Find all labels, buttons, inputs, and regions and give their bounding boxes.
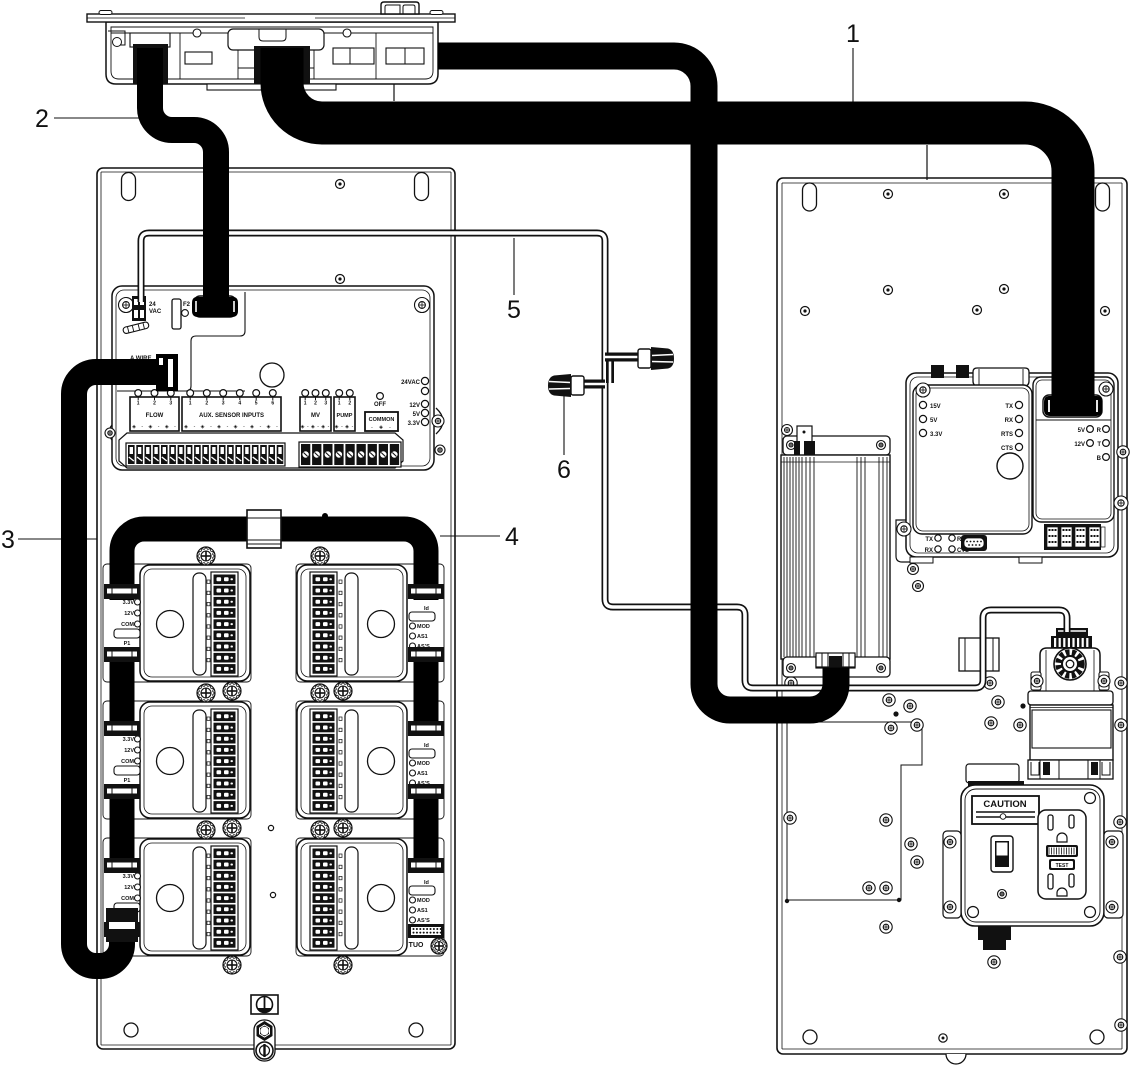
svg-text:1: 1 [846,20,860,48]
svg-text:MOD: MOD [417,624,430,630]
U1 top connector [973,368,1029,386]
svg-text:◈: ◈ [345,424,349,430]
PCB1 24VAC input connector [132,296,162,321]
PCB1 COMMON block [365,412,398,431]
U1 antenna stub 2 [956,365,969,378]
PCB1 fuse F2 [172,299,191,329]
label 2 leader [54,117,150,119]
module M6 screw tabs [311,821,352,974]
U1 button [997,453,1023,479]
GFCI bottom conduit bushing [978,926,1011,950]
svg-text:Id: Id [424,606,429,612]
left col port overlays row 1 [104,584,140,599]
svg-text:COM: COM [121,896,134,902]
PS1 output connector [816,655,855,668]
PS1 top bracket screw left [787,441,796,450]
right panel washer screw (791,683) [785,677,797,689]
right panel washer screw (1121,1025) [1115,1019,1127,1031]
svg-text:3: 3 [222,401,225,407]
module M4 top port [408,721,444,736]
svg-text:TX: TX [925,537,933,543]
PS1 top bracket screw right [877,441,886,450]
right panel washer screw (889,700) [883,694,895,706]
svg-text:PUMP: PUMP [337,413,353,419]
PCB1 right LED column [401,377,429,427]
left panel bottom hole right [409,1023,423,1037]
svg-text:TX: TX [1005,404,1013,410]
relay module M6 (row 3 right) [296,838,444,956]
U1 left radio module [913,385,1032,534]
right panel washer screw (869,888) [863,882,875,894]
right panel screw hole (805,311) [801,307,810,316]
right panel screw hole (1004,289) [1000,285,1009,294]
svg-text:12V: 12V [1074,442,1085,448]
PCB1 right terminal strip (large screw terminals) [299,442,401,467]
left mounting panel [97,168,455,1049]
cable 3 (A-wire loop from PCB1 to module M5) [74,372,176,966]
toggle switch S1 [991,836,1013,872]
top unit small circle left [193,29,201,37]
U1 corner screw top-right [1099,382,1113,396]
svg-text:5: 5 [255,401,258,407]
GFCI bracket screw left-top [944,836,956,848]
GFCI corner screws [968,793,1096,918]
PS1 terminal washer [782,425,793,436]
svg-text:RTS: RTS [1001,432,1013,438]
right panel washer screw (1121,683) [1115,677,1127,689]
left panel mounting slot right [415,173,429,201]
svg-text:6: 6 [271,401,274,407]
right panel washer screw (886,927) [880,921,892,933]
svg-text:2: 2 [314,401,317,407]
U1 terminal block [1044,524,1105,550]
U1 side screw tab right [1114,496,1128,510]
svg-text:12V: 12V [409,403,420,409]
right panel washer screw (917,862) [911,856,923,868]
svg-text:RX: RX [1005,418,1013,424]
right panel washer screw (891,728) [885,722,897,734]
relay module M5 (row 3 left) [103,838,251,956]
svg-text:2: 2 [35,105,49,133]
top unit left bracket [108,31,125,47]
svg-text:Id: Id [424,880,429,886]
right panel screw hole (888,290) [884,286,893,295]
module M1 screw tabs [197,547,241,700]
relay module M4 (row 2 right) [296,701,444,819]
svg-text:AUX. SENSOR INPUTS: AUX. SENSOR INPUTS [199,413,264,419]
svg-text:3.3V: 3.3V [123,737,135,743]
PS1 bottom bracket screw left [787,664,796,673]
label 3 leader [18,538,97,540]
svg-text:◈: ◈ [184,424,188,430]
module M6 top port [408,858,444,873]
right panel washer screw (886,820) [880,814,892,826]
svg-text:RX: RX [925,548,933,554]
svg-text:◈: ◈ [335,424,339,430]
svg-text:◈: ◈ [165,424,169,430]
svg-text:B: B [1097,456,1102,462]
svg-text:4: 4 [505,523,519,551]
top unit port bank right1 [333,48,374,64]
PCB1 left terminal strip (small screw terminals) [126,443,285,466]
svg-text:AS1: AS1 [417,908,428,914]
PCB1 MV terminal group [300,390,331,431]
svg-text:COM: COM [121,622,134,628]
svg-text:Id: Id [424,743,429,749]
svg-text:AS1: AS1 [417,771,428,777]
svg-text:6: 6 [557,456,571,484]
ground lug box [251,995,278,1014]
PCB1 terminal strip plate [119,433,403,468]
GFCI side bracket right [1104,831,1123,918]
right panel washer screw (1020,725) [1014,719,1026,731]
PS1 bracket washer b [908,564,919,575]
PS1 finned body [781,455,890,659]
module M1 side labels [114,599,141,647]
actuator side ear right [1099,672,1109,690]
right panel washer screw (998,702) [992,696,1004,708]
svg-text:3.3V: 3.3V [408,421,420,427]
svg-text:◈: ◈ [267,424,271,430]
PS1 bracket washer a [901,525,912,536]
PCB1 OFF jumper [374,393,386,408]
right panel washer screw (886,888) [880,882,892,894]
right panel washer screw (994,962) [988,956,1000,968]
module M2 bottom port [408,647,444,662]
right panel bottom small hole [939,1034,947,1042]
GFCI bracket screw right-top [1106,836,1118,848]
CAUTION label [972,796,1039,824]
cable segment left col row2-row3 [110,788,135,868]
PS1 bottom bracket [783,657,890,677]
PCB1 PUMP terminal group [334,390,355,431]
panel screw near U1 [1117,446,1129,458]
cable A (power cable unit to PS1) [438,56,836,710]
right panel washer screw (911,844) [905,838,917,850]
module M4 bottom port [408,784,444,799]
cable segment right col row2-row3 [414,788,439,868]
right panel washer screw (790,818) [784,812,796,824]
svg-text:T: T [1097,442,1101,448]
svg-text:CTS: CTS [1001,446,1013,452]
PCB1 FLOW terminal group [130,390,179,431]
svg-text:12V: 12V [124,611,134,617]
svg-text:CAUTION: CAUTION [983,799,1026,810]
module M3 side labels [114,736,141,784]
svg-text:5: 5 [507,296,521,324]
right panel washer screw (917,725) [911,719,923,731]
U1 antenna stub 1 [931,365,944,378]
svg-text:12V: 12V [124,885,134,891]
module M1 top port [104,584,140,599]
top unit rear connector block [381,2,419,14]
module M6 side labels [409,880,435,924]
svg-text:AS’S: AS’S [417,918,430,924]
wiring channel outline [787,722,922,900]
right panel mounting slot left [803,183,817,211]
PCB1 corner screw top-right [415,298,430,313]
thin interconnect cable (5) inner white [141,233,1067,688]
svg-text:24: 24 [149,302,156,308]
svg-text:COMMON: COMMON [369,417,395,423]
label 6 leader [563,396,565,455]
U1 right LEDs [1001,401,1023,452]
svg-text:VAC: VAC [149,309,162,315]
top unit antenna stub [393,84,395,101]
right panel washer screw (910,706) [904,700,916,712]
svg-text:MV: MV [311,413,320,419]
svg-text:◈: ◈ [234,424,238,430]
duplex outlet [1038,810,1086,899]
svg-text:COM: COM [121,759,134,765]
comm module assembly U1 outer housing [906,373,1118,557]
U1 bottom label row [925,535,969,554]
right panel screw hole (888,194) [884,190,893,199]
relay module M1 (row 1 left) [103,564,251,682]
panel dot B [270,892,275,897]
module M3 screw tabs [197,684,241,837]
module M3 top port [104,721,140,736]
right panel washer screw (990,683) [984,677,996,689]
svg-text:3: 3 [324,401,327,407]
wire branch right [605,353,642,362]
top controller unit U-top (back view) [106,22,438,84]
right panel dot b [1020,703,1025,708]
svg-text:1: 1 [137,401,140,407]
U1 right module divider [1036,419,1111,421]
U1 side screw tab left [897,522,911,536]
GFCI bracket screw left-bottom [944,901,956,913]
cable 3 plug shell at PCB1 [156,354,178,391]
module M5 screw tabs [197,821,241,974]
right panel screw hole (977,310) [973,306,982,315]
power supply PS1 top bracket [783,436,890,455]
svg-text:24VAC: 24VAC [401,380,421,386]
right panel mounting slot right [1096,183,1110,211]
svg-text:4: 4 [238,401,241,407]
actuator top connector cap [1051,628,1092,649]
U1 left LEDs [919,401,942,438]
svg-text:1: 1 [304,401,307,407]
svg-text:◈: ◈ [132,424,136,430]
svg-text:3: 3 [169,401,172,407]
actuator cable clamp block [959,638,999,671]
svg-text:P1: P1 [124,641,131,647]
U1 right module cable connector [1043,395,1102,417]
U1 right interface module [1033,377,1114,522]
valve body box [1030,705,1113,760]
actuator mounting plate [1028,691,1113,705]
top unit left port (cable 2 exit) [130,33,170,84]
left panel bottom hole left [124,1023,138,1037]
right panel washer screw (1120,822) [1114,816,1126,828]
wire nut left (on branch) [548,374,584,397]
svg-text:2: 2 [205,401,208,407]
module M1 bottom port [104,647,140,662]
svg-text:1: 1 [189,401,192,407]
PCB1 AUX SENSOR INPUTS terminal group [182,390,281,431]
svg-text:AS1: AS1 [417,634,428,640]
right panel bottom hole left [803,1030,817,1044]
GFCI bracket screw right-bottom [1106,901,1118,913]
top unit port bank right2 [386,48,424,64]
svg-text:12V: 12V [124,748,134,754]
clamp dot [322,513,328,519]
right panel screw hole (1004,194) [1000,190,1009,199]
right panel bottom hole right [1090,1030,1104,1044]
module M5 side labels [114,873,141,921]
drop wire to right panel [926,145,928,180]
right col port overlays row 2 [408,721,444,736]
PS1 bottom bracket screw right [877,664,886,673]
left panel mounting slot left [122,173,136,201]
top unit bottom tray [207,84,336,90]
right col port overlays row 1 [408,584,444,599]
module M2 screw tabs [311,547,352,700]
cable 2 (display cable to PCB1) [150,48,216,300]
ground bolt [254,1020,275,1061]
wire nut right (on branch) [638,347,674,370]
control board PCB1 housing [112,286,434,470]
left panel screw hole mid [336,275,345,284]
top unit small box A [185,52,212,64]
cable A plug at PS1 output (ribbed connector overlay) [816,653,855,667]
PS1 support bracket right [896,520,916,562]
module M6 OUT connector [408,924,444,949]
top unit display connector (cable 1 exit) [228,29,324,84]
right panel washer screw (991,723) [985,717,997,729]
cable segment right col row1-row2 [414,648,439,730]
svg-text:OFF: OFF [374,402,386,408]
svg-text:◈: ◈ [148,424,152,430]
PCB1 display connector (cable 2 target) [194,296,236,317]
PCB1 corner screw top-left [119,298,134,313]
cable 4 (module jumper top run) [122,529,426,600]
channel corner dot right [897,898,901,902]
svg-text:2: 2 [348,401,351,407]
module M6 bottom-right screw [431,938,447,954]
cable clamp on cable 4 [247,510,281,548]
right panel washer screw (1120,957) [1114,951,1126,963]
GFCI small screw [998,890,1007,899]
module M5 top port [104,858,140,873]
svg-text:◈: ◈ [201,424,205,430]
actuator dial head [1040,648,1100,693]
svg-text:◈: ◈ [301,424,305,430]
module M3 bottom port [104,784,140,799]
module M4 side labels [409,743,435,787]
svg-text:MOD: MOD [417,898,430,904]
U1 mounting feet [910,557,1042,563]
module M4 screw tabs [311,684,352,837]
U1 corner screw top-left [916,383,930,397]
svg-text:5V: 5V [930,418,937,424]
actuator plate screw right [1098,675,1110,687]
top unit small circle right [343,29,351,37]
svg-text:15V: 15V [930,404,941,410]
svg-text:◈: ◈ [321,424,325,430]
svg-text:3.3V: 3.3V [123,600,135,606]
wire branch left [581,380,605,389]
relay module M2 (row 1 right) [296,564,444,682]
svg-text:1: 1 [338,401,341,407]
module M2 side labels [409,606,435,650]
actuator side ear left [1031,672,1041,690]
thin interconnect cable (5) outer [141,233,1067,688]
svg-text:F2: F2 [183,302,191,308]
cable 3 entry connector at M5 [106,908,138,942]
PCB1 speaker circle [260,363,284,387]
left col port overlays row 3 [104,858,140,873]
svg-text:TEST: TEST [1056,863,1069,869]
svg-text:R: R [1097,428,1102,434]
svg-text:3.3V: 3.3V [930,432,942,438]
U1 DB9 connector [961,535,987,551]
svg-text:3: 3 [1,526,15,554]
module M2 top port [408,584,444,599]
cable 2 plug shell at PCB1 [192,297,238,317]
svg-text:3.3V: 3.3V [123,874,135,880]
top unit mounting plate [87,11,455,23]
PCB1 spare fuse (diagonal) [123,321,150,334]
valve lower flange [1028,760,1113,779]
svg-text:2: 2 [153,401,156,407]
svg-text:◈: ◈ [217,424,221,430]
left panel screw hole top [336,180,345,189]
label 1 leader [852,48,854,103]
twin wire run between branches [606,353,614,383]
svg-text:◈: ◈ [250,424,254,430]
GFCI backplate tab [966,764,1024,786]
panel dot A [268,825,273,830]
GFCI side bracket left [943,831,961,918]
svg-text:FLOW: FLOW [146,413,164,419]
relay module M3 (row 2 left) [103,701,251,819]
PS1 bracket washer c [913,581,924,592]
svg-text:◈: ◈ [379,425,383,431]
right mounting panel [777,178,1127,1064]
right col port overlays row 3 [408,858,444,873]
svg-text:P1: P1 [124,778,131,784]
U1 right module LEDs [1074,426,1109,462]
right panel washer screw (1121,725) [1115,719,1127,731]
PCB1 left hinge tab [105,425,115,440]
cable 1 plug shell at U1 [1044,396,1102,416]
right panel screw hole (1105,311) [1101,307,1110,316]
label 4 leader [440,535,500,537]
svg-text:OUT: OUT [408,942,424,949]
svg-text:5V: 5V [413,412,420,418]
channel corner dot left [785,899,789,903]
GFCI enclosure [961,785,1104,926]
label 5 leader [513,238,515,295]
svg-text:MOD: MOD [417,761,430,767]
svg-text:◈: ◈ [311,424,315,430]
svg-text:5V: 5V [1078,428,1085,434]
right panel dot a [893,711,898,716]
left col port overlays row 2 [104,721,140,736]
cable 1 (main comm cable to right panel) [282,48,1073,404]
cable segment left col row1-row2 [110,648,135,730]
PCB1 right latch [432,408,445,455]
actuator plate screw left [1031,675,1043,687]
PS1 AC terminal [794,426,815,455]
